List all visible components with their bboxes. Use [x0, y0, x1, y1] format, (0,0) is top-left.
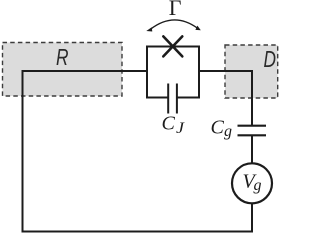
svg-text:C: C: [162, 113, 176, 135]
svg-text:R: R: [56, 44, 69, 70]
wire left vertical + bottom return + right vertical to Vg: [23, 70, 253, 232]
junction loop bottom edge right segment: [177, 97, 200, 99]
junction loop bottom edge left segment: [146, 97, 168, 99]
voltage source V_g circle: [232, 163, 272, 203]
label Gamma (tunneling rate): [169, 0, 182, 20]
label D: [264, 46, 277, 72]
capacitor C_g top plate: [238, 125, 267, 127]
resistor R environment box (dashed): [3, 43, 123, 97]
wire from R to junction loop (horizontal): [23, 70, 149, 72]
capacitor C_J left plate: [167, 84, 169, 114]
label C_g: [211, 117, 233, 141]
capacitor C_g bottom plate: [238, 134, 267, 136]
label C_J: [162, 113, 186, 137]
wire from junction loop to D (horizontal): [198, 70, 252, 72]
svg-text:Γ: Γ: [169, 0, 182, 20]
label V_g: [243, 171, 262, 195]
wire from Cg bottom plate to Vg: [251, 135, 253, 164]
svg-text:g: g: [224, 123, 232, 140]
label R: [56, 44, 69, 70]
svg-text:J: J: [176, 120, 185, 137]
capacitor C_J right plate: [176, 84, 178, 114]
wire vertical from D down to Cg: [251, 70, 253, 125]
Josephson junction cross X: [163, 36, 182, 56]
arc arrow under Gamma (double-headed): [146, 20, 201, 32]
detector D box (dashed): [225, 45, 278, 98]
svg-text:C: C: [211, 117, 225, 139]
junction loop box (left, top, right edges): [147, 47, 199, 98]
svg-text:g: g: [254, 177, 262, 194]
svg-text:D: D: [264, 46, 277, 72]
